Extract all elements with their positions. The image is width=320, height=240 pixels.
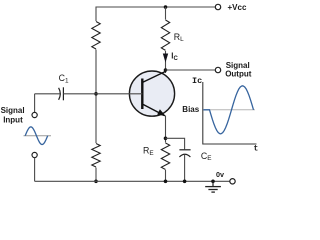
transistor base bar [141,79,143,110]
svg-text:t: t [254,145,259,154]
svg-text:CE: CE [201,151,212,162]
node emitter junction dot [164,137,168,141]
resistor R1 upper bias resistor [91,21,101,50]
wire CE lower lead [184,155,186,182]
capacitor CE curved plate [179,154,190,157]
wire base from C1 to transistor base [63,93,142,95]
capacitor C1 input coupling: left wire [35,93,60,95]
graph axes Ic vs t [203,82,257,144]
terminal Signal Output [215,67,220,72]
wire input lower lead to bottom rail [34,158,36,182]
wire bottom rail [35,180,231,182]
resistor RL load resistor [161,20,171,52]
svg-text:C1: C1 [59,73,69,84]
terminal 0v [230,179,235,184]
svg-text:Input: Input [3,115,23,124]
svg-text:+Vcc: +Vcc [228,3,247,12]
resistor R2 lower bias resistor [91,143,101,168]
transistor Q1 NPN in circle [129,71,174,116]
transistor collector lead diagonal [143,71,166,82]
wire left vertical between base node and bottom rail [95,94,97,182]
node base junction dot [94,92,98,96]
svg-text:RL: RL [174,32,184,43]
capacitor CE straight plate [179,149,190,151]
input sine wave blue [25,127,48,145]
node lower-left junction dot on bottom rail [94,180,98,184]
wire collector vertical from top rail through RL to transistor [165,7,167,73]
arrow Ic current arrow on collector wire [163,54,168,63]
resistor RE emitter resistor [161,143,171,171]
ground symbol [212,181,214,186]
capacitor C1 curved plate [59,88,61,100]
node RE bottom junction dot [164,180,168,184]
svg-text:IC: IC [171,52,178,62]
wire CE branch from emitter node [166,138,185,149]
terminal +Vcc [215,4,220,9]
svg-text:Output: Output [225,69,252,78]
input sine source symbol centerline [24,135,52,137]
transistor emitter lead diagonal with arrow [143,104,165,115]
node top junction dot at collector branch [164,5,168,9]
wire input upper lead [34,94,36,113]
svg-text:RE: RE [143,146,154,157]
terminal input lower [32,152,37,157]
bias level gray line [203,109,255,111]
node collector junction dot [164,68,168,72]
wire emitter vertical through RE to bottom rail [165,116,167,182]
wire top rail from R1 top to +Vcc terminal [96,7,215,94]
svg-text:Bias: Bias [182,105,199,114]
node CE bottom junction dot [183,180,187,184]
svg-text:Signal: Signal [1,106,25,115]
terminal input upper [32,112,37,117]
svg-text:0v: 0v [216,170,224,179]
wire output from collector node to Signal Output terminal [166,69,216,71]
node ground junction dot on bottom rail [211,180,215,184]
svg-text:Ic: Ic [192,76,202,86]
graph blue output waveform [203,86,253,134]
capacitor C1 straight plate [62,87,64,100]
